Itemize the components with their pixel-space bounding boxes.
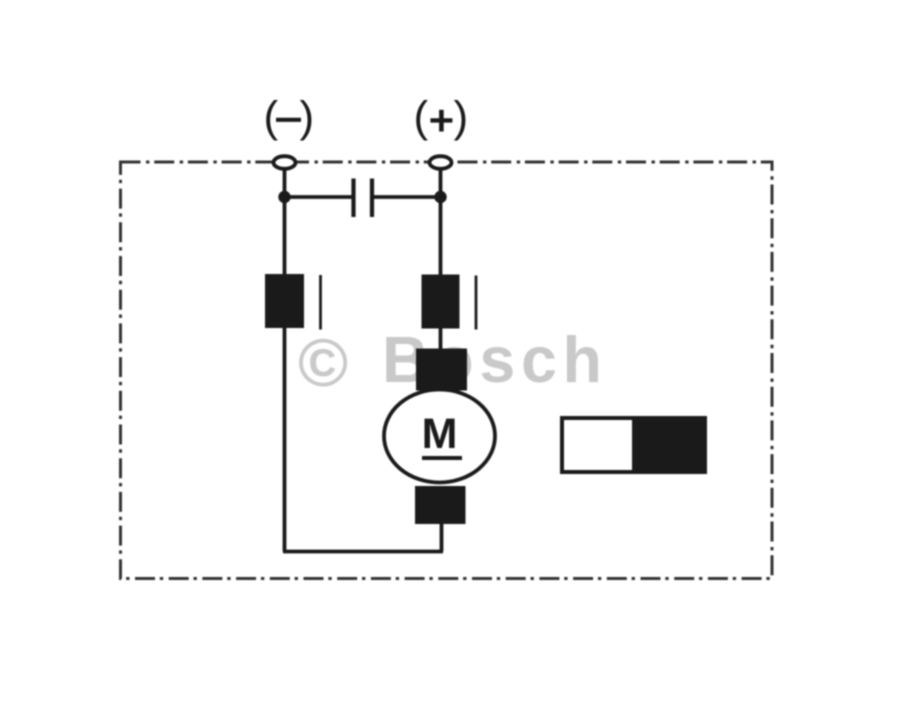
svg-text:M: M [422, 410, 458, 458]
svg-text:): ) [300, 93, 315, 142]
svg-text:(: ( [264, 93, 279, 142]
svg-text:©: © [298, 325, 348, 401]
svg-text:): ) [454, 93, 469, 142]
svg-text:Bosch: Bosch [382, 324, 608, 396]
svg-text:(: ( [414, 93, 429, 142]
